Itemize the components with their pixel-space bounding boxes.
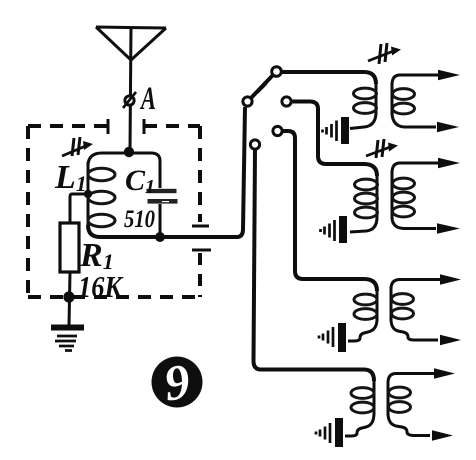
svg-text:C1: C1 [125,164,155,198]
svg-text:510: 510 [124,206,155,233]
junction node (C1 bottom) [155,232,165,242]
wire tap to R1 [70,194,88,223]
transformer T2 secondary [392,158,460,234]
switch contact 3 [273,126,282,135]
T4 padder capacitor plate [335,418,343,447]
T2 padder capacitor plate [339,216,347,243]
switch contact: pole [243,97,252,106]
transformer T3 secondary [391,274,461,345]
T2 chassis ground [321,220,335,241]
wire contact2 to T2 [291,102,364,165]
T2 trimmer arrow [366,139,398,158]
transformer T3 primary [348,279,377,341]
resistor R1 [60,223,124,304]
junction node (box bottom edge) [63,291,74,302]
svg-text:L1: L1 [54,159,87,196]
T4 chassis ground [316,423,330,443]
svg-text:16K: 16K [78,269,124,304]
svg-text:A: A [140,81,156,117]
transformer T4 secondary [388,368,455,440]
T1 padder capacitor plate [341,117,349,144]
switch contact: output common [272,67,282,77]
switch contact 4 [250,140,259,149]
T3 chassis ground [319,327,333,347]
junction node (antenna to tank) [124,147,134,157]
ground [51,325,84,351]
switch contact 2 [282,97,291,106]
transformer T1 primary [281,72,377,129]
trimmer arrow of L1 [62,137,93,156]
transformer T4 primary [345,370,374,437]
wire contact4 to T4 [254,149,365,370]
coil tap junction [84,190,92,198]
wire tank bottom to switch pole [88,107,245,237]
T1 chassis ground [323,121,337,142]
transformer T1 secondary [392,70,460,132]
wire contact3 to T3 [282,131,364,279]
T1 trimmer arrow [368,43,401,64]
transformer T2 primary [350,164,378,232]
wire tank top [88,153,160,188]
switch wiper arm [251,75,273,98]
capacitor C1 [124,164,178,237]
inductor L1 [54,159,115,228]
shield enclosure (dashed box) [28,119,211,297]
wire R1 to ground [69,272,70,326]
T3 padder capacitor plate [338,323,346,352]
figure number emblem 9 [152,353,203,412]
node A [123,81,156,117]
antenna [96,27,166,150]
